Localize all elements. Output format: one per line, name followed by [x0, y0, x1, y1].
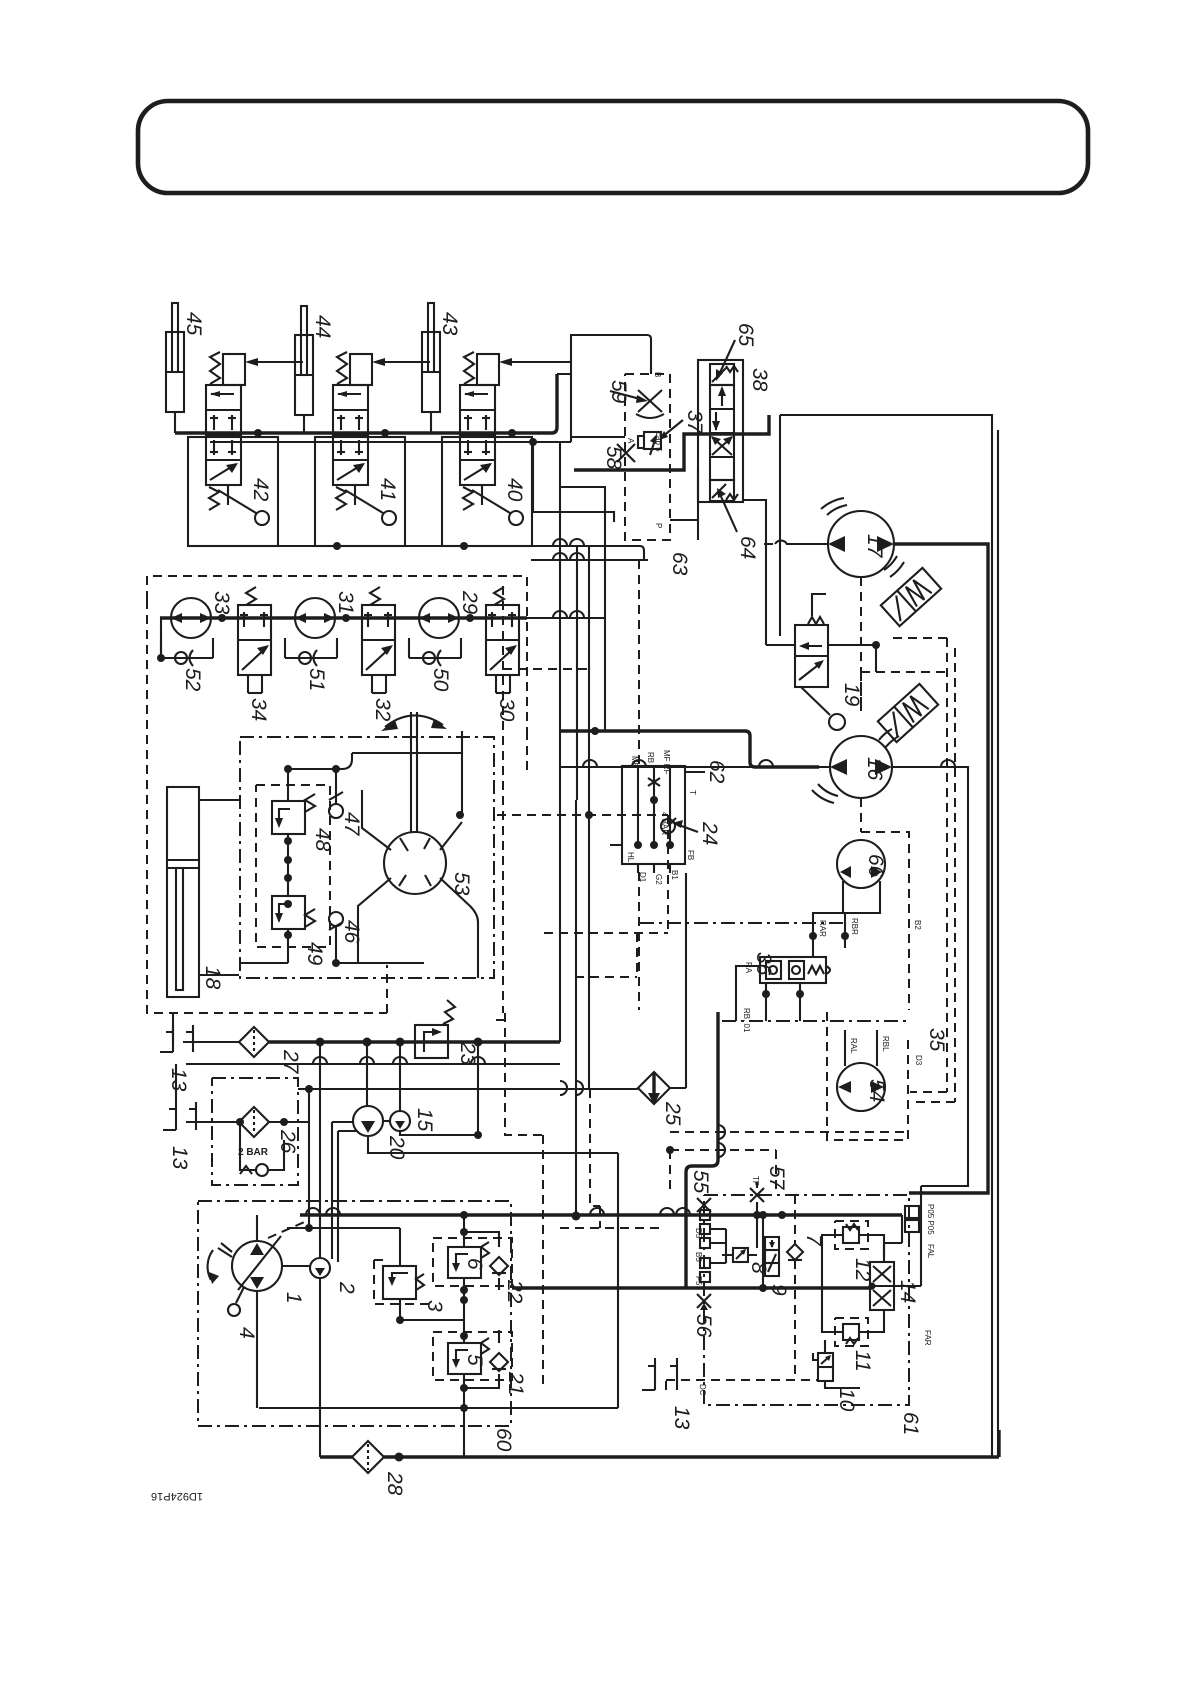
- check 22: [490, 1257, 508, 1275]
- wire y1088: [298, 873, 686, 1089]
- pump 20: [353, 1106, 383, 1136]
- dashed x795: [794, 1195, 796, 1380]
- dash-dot y1021: [722, 1020, 909, 1022]
- wire left risers: [332, 1122, 356, 1262]
- valve 42 frame: [188, 437, 278, 546]
- svg-text:29: 29: [458, 590, 481, 615]
- motor 66: [837, 840, 885, 888]
- svg-text:RB, 01: RB, 01: [742, 1008, 751, 1033]
- hop y560: [553, 553, 584, 560]
- wire 62 leader: [685, 771, 705, 773]
- svg-text:P: P: [654, 523, 663, 528]
- title box: [138, 101, 1088, 193]
- svg-text:FB: FB: [686, 850, 695, 860]
- svg-text:50: 50: [429, 668, 452, 692]
- svg-text:17: 17: [863, 534, 886, 559]
- svg-text:32: 32: [371, 698, 394, 722]
- main line y1215: [300, 1213, 902, 1216]
- motor 31: [295, 598, 335, 638]
- dashed box 66: [861, 798, 909, 1010]
- gearbox 16: [878, 684, 938, 742]
- svg-text:D5: D5: [694, 1228, 703, 1239]
- svg-text:RBL: RBL: [881, 1036, 890, 1052]
- svg-text:2: 2: [335, 1281, 358, 1294]
- svg-text:3: 3: [423, 1300, 446, 1312]
- control enclosure dash-dot box: [240, 737, 494, 978]
- wire y560: [531, 559, 648, 561]
- wire 38 right: [743, 500, 795, 645]
- coupling 17: [884, 556, 904, 577]
- dashed box 11: [835, 1318, 868, 1346]
- svg-text:56: 56: [692, 1314, 715, 1338]
- svg-text:RA: RA: [744, 962, 753, 974]
- wire y1064: [186, 1063, 560, 1065]
- svg-text:48: 48: [311, 828, 334, 852]
- svg-text:14: 14: [896, 1280, 919, 1303]
- dashed box 5: [433, 1332, 512, 1380]
- valve 38 top pilot: [710, 364, 738, 385]
- dashed left pair: [560, 1089, 660, 1228]
- check valve 52: [161, 638, 213, 666]
- wire 57 drop: [756, 1202, 758, 1248]
- valve 38 enclosure: [698, 360, 743, 502]
- wire valve3: [287, 1228, 464, 1320]
- wire riser x571: [571, 335, 651, 442]
- svg-text:53: 53: [450, 872, 473, 896]
- svg-text:15: 15: [413, 1108, 436, 1132]
- dashed x670: [669, 1150, 671, 1195]
- check valve 51: [285, 638, 337, 666]
- valve 5: [448, 1338, 489, 1374]
- hops y618 ext: [553, 611, 584, 618]
- cylinder 43: [422, 303, 440, 433]
- wire check bus y658 left drop: [160, 618, 162, 658]
- svg-text:51: 51: [305, 668, 328, 691]
- svg-text:cab 5: cab 5: [654, 432, 663, 452]
- wire y731: [560, 731, 819, 767]
- dashed right verticals: [890, 638, 947, 1092]
- wire 19 right: [828, 645, 876, 672]
- wire 62 bottom: [610, 845, 670, 873]
- main line y1288: [512, 1286, 873, 1289]
- big right box second edge: [997, 430, 999, 1457]
- valve 23: [400, 1000, 478, 1058]
- port ladder: [700, 1210, 726, 1282]
- svg-text:38: 38: [748, 368, 771, 392]
- svg-text:61: 61: [899, 1412, 922, 1435]
- svg-text:62: 62: [705, 760, 728, 784]
- wire x763: [762, 1215, 764, 1288]
- gearbox 17: [881, 568, 941, 626]
- wire y470: [574, 415, 769, 470]
- wire bus A y433: [175, 374, 557, 433]
- svg-text:54: 54: [865, 1079, 888, 1102]
- valve 40 frame: [442, 437, 532, 546]
- cylinder 44: [295, 306, 313, 433]
- svg-text:64: 64: [736, 536, 759, 559]
- svg-text:46: 46: [340, 920, 363, 944]
- svg-text:40: 40: [503, 478, 526, 502]
- wire 20-15 drops: [259, 1042, 618, 1408]
- svg-text:1: 1: [282, 1292, 305, 1304]
- dashed x503: [502, 586, 504, 1013]
- junction dots bus A: [254, 429, 262, 437]
- svg-text:4: 4: [235, 1327, 258, 1339]
- motor 54: [837, 1063, 885, 1111]
- wire 38 left drop: [670, 470, 698, 540]
- dashed tank feed: [666, 1380, 818, 1390]
- check valve 50: [409, 638, 461, 666]
- bundle vertical x576: [575, 800, 577, 1216]
- wire top feed y769: [288, 753, 462, 963]
- wire 12-14: [822, 1186, 921, 1332]
- svg-text:D3: D3: [914, 1055, 923, 1066]
- svg-text:10: 10: [835, 1388, 858, 1412]
- tank 13 lower: [163, 1102, 196, 1130]
- wire 16 right: [892, 767, 968, 1186]
- box 60 dash-dot: [198, 1201, 511, 1426]
- valve 38: [710, 385, 734, 480]
- block 36: [760, 957, 830, 983]
- hops x718: [718, 1125, 725, 1157]
- valve 38 bottom pilot: [710, 480, 738, 501]
- bottom line y1457: [320, 1430, 999, 1457]
- valve 42 bottom stub: [227, 485, 229, 505]
- valve 32: [362, 587, 395, 693]
- svg-text:B: B: [653, 372, 662, 377]
- pump 1: [208, 1236, 282, 1291]
- filter 28: [352, 1441, 384, 1473]
- hops y1215: [306, 1208, 690, 1215]
- throttle 58: [617, 444, 635, 462]
- dashed enclosure 18-53 subsystem: [147, 576, 527, 1013]
- valve 42 lever: [218, 490, 256, 513]
- valve 34: [238, 587, 271, 693]
- hops y767: [583, 760, 773, 767]
- supply x718: [686, 1012, 718, 1288]
- throttle 56: [697, 1294, 711, 1310]
- bundle vertical x560: [559, 442, 561, 1042]
- wire 47-46 spine: [335, 769, 337, 963]
- wire 10: [825, 1340, 860, 1388]
- motor 16: [812, 736, 892, 803]
- valve 3: [383, 1266, 424, 1299]
- valve 40 pilot arrow: [502, 361, 571, 363]
- svg-text:16: 16: [863, 757, 886, 781]
- pump 53: [384, 832, 446, 894]
- valve 37: [638, 432, 661, 455]
- valve 41 pilot box: [350, 354, 372, 385]
- valve 19: [795, 594, 845, 730]
- wire 20-15 link: [383, 1120, 390, 1122]
- wire bus y618 ext: [527, 617, 605, 619]
- box 63 dashed: [625, 374, 670, 540]
- svg-text:66: 66: [864, 854, 887, 878]
- valve 42 pilot arrow: [248, 361, 303, 363]
- svg-text:T: T: [688, 790, 697, 795]
- svg-text:13: 13: [168, 1146, 191, 1170]
- dashed box 6: [433, 1238, 512, 1286]
- svg-text:49: 49: [303, 942, 326, 966]
- hops x576: [560, 1081, 583, 1095]
- svg-text:FAR: FAR: [923, 1330, 932, 1346]
- svg-text:19: 19: [840, 683, 863, 707]
- pump 2: [310, 1258, 330, 1278]
- svg-text:52: 52: [181, 668, 204, 692]
- wire valve63 feed y437: [571, 436, 625, 438]
- dashed 17 to 16: [860, 577, 862, 712]
- dashed pilot box 48-49: [256, 785, 330, 947]
- svg-text:TP: TP: [751, 1176, 760, 1186]
- valve 9: [765, 1237, 779, 1276]
- tank 13 upper: [160, 1025, 193, 1052]
- dash-dot y923: [640, 922, 846, 924]
- svg-text:13: 13: [670, 1406, 693, 1430]
- cylinder 45: [166, 303, 184, 433]
- block 62 dots: [634, 841, 642, 849]
- dashed pilot x637: [636, 933, 638, 977]
- dashed box 3: [374, 1260, 431, 1304]
- wire tank13b: [173, 1012, 240, 1122]
- dashed enclosure inner step: [386, 965, 388, 1013]
- svg-text:18: 18: [201, 966, 224, 990]
- svg-text:35: 35: [925, 1028, 948, 1052]
- wire FAL riser: [884, 1215, 902, 1258]
- valve 40 bottom stub: [481, 485, 483, 505]
- svg-text:42: 42: [249, 478, 272, 502]
- bundle vertical x577: [576, 546, 578, 800]
- svg-text:41: 41: [376, 478, 399, 501]
- leader 59: [610, 391, 644, 400]
- valve 42 pilot box: [223, 354, 245, 385]
- svg-text:47: 47: [340, 812, 363, 837]
- motor 29: [419, 598, 459, 638]
- motor 33: [171, 598, 211, 638]
- box 26 dash-dot: [212, 1078, 298, 1185]
- valve 42 body: [206, 385, 241, 485]
- filter 26: [239, 1107, 269, 1137]
- valve 41 frame: [315, 437, 405, 546]
- wire steps: [531, 374, 614, 731]
- valve 41 lever: [345, 490, 383, 513]
- leader 64: [719, 492, 737, 532]
- check 7: [787, 1244, 803, 1260]
- dashed pump pilot: [268, 1220, 309, 1238]
- valve 41 pilot spring: [337, 352, 347, 384]
- svg-text:21: 21: [504, 1371, 527, 1395]
- dashed box 35: [827, 1012, 908, 1140]
- svg-text:4 BAR: 4 BAR: [660, 812, 669, 835]
- check 46: [329, 912, 343, 930]
- valve 6: [448, 1242, 489, 1278]
- svg-text:FAL: FAL: [926, 1244, 935, 1259]
- check 21: [490, 1353, 508, 1371]
- dashed box 12: [835, 1221, 868, 1249]
- svg-text:27: 27: [279, 1049, 302, 1075]
- valve 40 pilot spring: [464, 352, 474, 384]
- pump 15: [390, 1111, 410, 1131]
- wire 48-49 spine: [239, 769, 288, 963]
- svg-text:DC: DC: [698, 1384, 707, 1396]
- svg-text:9: 9: [767, 1284, 790, 1296]
- valve 40 lever: [472, 490, 510, 513]
- wire tank return y546: [188, 546, 644, 560]
- port boxes D50: [905, 1206, 919, 1232]
- dashed y1150: [670, 1150, 776, 1195]
- svg-text:37: 37: [683, 410, 706, 435]
- svg-text:RB: RB: [646, 752, 655, 763]
- motor 17: [821, 498, 894, 577]
- wire 36: [736, 966, 800, 1021]
- wire 53 right riser: [461, 731, 463, 753]
- svg-text:36: 36: [752, 952, 775, 976]
- valve 30: [486, 587, 519, 693]
- lever 4: [228, 1287, 244, 1316]
- svg-text:30: 30: [495, 698, 518, 722]
- wire bus B y442: [210, 441, 571, 443]
- check 2bar: [238, 1122, 284, 1176]
- valve 40 pilot box: [477, 354, 499, 385]
- svg-text:60: 60: [492, 1428, 515, 1452]
- wire pump1: [257, 1042, 320, 1457]
- svg-text:33: 33: [210, 591, 233, 615]
- dashed pilot y815: [497, 814, 668, 816]
- valve 40 body: [460, 385, 495, 485]
- valve 14: [869, 1262, 895, 1310]
- wire tank13a: [183, 1041, 240, 1043]
- valve 41 bottom spring: [336, 487, 346, 510]
- throttle 59: [636, 390, 664, 418]
- filter 25: [638, 1072, 670, 1105]
- big right box outer: [780, 415, 992, 1457]
- wire motor bus y618: [160, 616, 527, 619]
- coupling 16: [879, 729, 899, 748]
- wire cyl18 top: [199, 800, 239, 975]
- dashed box 16: [861, 672, 947, 712]
- svg-text:MF RF: MF RF: [662, 750, 671, 775]
- svg-text:25: 25: [661, 1101, 684, 1126]
- wire 17 left: [786, 543, 828, 545]
- svg-text:A: A: [626, 438, 635, 444]
- filter 27: [239, 1027, 269, 1057]
- svg-text:G2: G2: [654, 874, 663, 885]
- svg-text:65: 65: [734, 323, 757, 347]
- svg-text:F5: F5: [694, 1276, 703, 1286]
- wire 54 ports: [845, 1030, 877, 1066]
- svg-text:45: 45: [182, 312, 205, 336]
- valve 41 pilot arrow: [375, 361, 430, 363]
- valve 8: [722, 1248, 757, 1262]
- svg-text:P05 P05: P05 P05: [926, 1204, 935, 1235]
- svg-text:24: 24: [698, 821, 721, 845]
- relief valve 49: [272, 896, 315, 929]
- svg-text:23: 23: [456, 1041, 479, 1066]
- gauge 24: [661, 818, 676, 833]
- valve 42 pilot spring: [210, 352, 220, 384]
- dashed pilot y933: [544, 932, 668, 934]
- tank 13 br: [642, 1358, 677, 1390]
- svg-text:5: 5: [463, 1354, 486, 1366]
- svg-text:20: 20: [385, 1135, 408, 1160]
- dashed pilot x668: [667, 815, 669, 933]
- svg-text:28: 28: [383, 1471, 406, 1496]
- hops y1064: [313, 1057, 485, 1064]
- relief valve 48: [272, 794, 315, 834]
- svg-text:RAL: RAL: [849, 1038, 858, 1054]
- wire 26 right: [269, 1089, 309, 1228]
- block 62: [622, 766, 685, 864]
- svg-text:43: 43: [438, 312, 461, 336]
- throttle 57: [750, 1176, 764, 1202]
- valve 12: [834, 1224, 868, 1243]
- wire 16 left: [560, 766, 830, 768]
- svg-text:RBR: RBR: [850, 918, 859, 935]
- valve 40 bottom spring: [463, 487, 473, 510]
- svg-text:2 BAR: 2 BAR: [238, 1147, 269, 1158]
- check 47: [329, 792, 343, 818]
- hops y546: [553, 539, 584, 546]
- main bus y1042: [269, 1040, 560, 1043]
- wire 17 right: [894, 544, 988, 1193]
- svg-text:44: 44: [311, 315, 334, 338]
- svg-text:D1: D1: [638, 872, 647, 883]
- svg-text:B5: B5: [694, 1252, 703, 1262]
- leader 65: [718, 340, 735, 377]
- wire valve56 spine: [464, 1215, 499, 1457]
- cylinder 18: [167, 787, 199, 997]
- svg-text:22: 22: [503, 1279, 526, 1304]
- svg-text:55: 55: [689, 1170, 712, 1194]
- wire 53 ports: [358, 790, 478, 978]
- svg-text:31: 31: [334, 591, 357, 614]
- pump 53 shaft: [411, 712, 417, 832]
- svg-text:34: 34: [247, 698, 270, 721]
- svg-text:B2: B2: [913, 920, 922, 930]
- svg-text:MB: MB: [630, 756, 639, 768]
- bundle vertical x589: [588, 546, 590, 1089]
- dashed pilot y977: [575, 976, 637, 978]
- dashed y669: [503, 668, 590, 670]
- svg-text:11: 11: [851, 1350, 874, 1372]
- dashed box x505-x543: [495, 1013, 543, 1388]
- svg-text:58: 58: [602, 446, 625, 470]
- valve 10: [813, 1353, 833, 1381]
- svg-text:6: 6: [463, 1258, 486, 1270]
- valve 11: [834, 1324, 868, 1344]
- valve 41 body: [333, 385, 368, 485]
- box 61 dash-dot: [704, 1195, 909, 1405]
- svg-text:26: 26: [276, 1129, 299, 1154]
- svg-text:57: 57: [765, 1166, 788, 1191]
- svg-text:HL: HL: [626, 852, 635, 863]
- leader 37: [662, 420, 683, 437]
- leader 24: [676, 824, 698, 832]
- wire 66 ports: [813, 881, 880, 957]
- valve 42 bottom spring: [209, 487, 219, 510]
- valve 41 bottom stub: [354, 485, 356, 505]
- svg-text:B1: B1: [670, 870, 679, 880]
- svg-text:1D924P16: 1D924P16: [151, 1490, 203, 1502]
- svg-text:13: 13: [167, 1068, 190, 1092]
- dashed y1132: [670, 1131, 909, 1133]
- dither arrow: [385, 715, 443, 727]
- throttle 55: [697, 1198, 711, 1212]
- dashed left col x639: [638, 560, 640, 1010]
- svg-text:63: 63: [668, 552, 691, 576]
